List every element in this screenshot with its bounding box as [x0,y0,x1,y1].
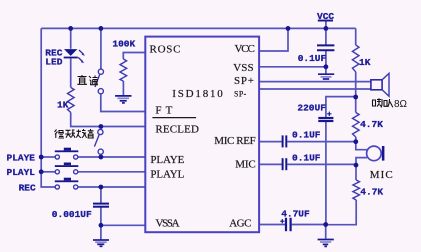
svg-text:0.1UF: 0.1UF [298,53,327,64]
switch S1 (direct) upper contact [98,69,103,74]
svg-text:4.7UF: 4.7UF [281,209,310,220]
LED D1 emission arrows [78,50,85,63]
VCC power symbol bar [318,20,333,22]
capacitor C6 4.7UF plates [286,218,291,231]
ground (VSS C1) [318,74,334,79]
wire VCC symbol stem [325,21,327,29]
label la-ba (speaker) glyph 2 [384,99,393,107]
wire R5 bottom corner to AGC node [326,200,357,225]
wire AGC node ground stem [325,225,327,239]
wire R5 top stub [355,165,357,180]
wire switch S1 branch from rail [100,28,102,69]
svg-text:100K: 100K [112,38,135,49]
wire R1 bottom to ground [122,81,124,95]
LED D1 cathode bar [64,57,78,59]
wire C6 to AGC node [292,224,326,226]
capacitor C2 plus sign [327,112,331,116]
svg-text:4.7K: 4.7K [360,119,383,130]
svg-text:PLAYE: PLAYE [150,154,184,166]
label zhi-tong (direct) glyph 1 [77,75,87,84]
label xun-huan-fang-yin glyph 3 [76,129,86,138]
svg-text:MIC REF: MIC REF [214,135,255,147]
svg-text:AGC: AGC [229,218,251,230]
capacitor C4 0.001UF plates [93,204,109,207]
wire S2 lower contact to PLAYE row [100,154,102,157]
junction node left rail PLAYL [39,169,44,174]
wire MIC REF row chip to cap [259,141,281,143]
capacitor C2 220UF plates [318,118,333,121]
wire PLAYL row right to chip [78,171,145,173]
wire ROSC pin to R1 [123,53,145,59]
junction node AGC [323,222,328,227]
wire C2 bottom long drop to AGC row [325,122,327,225]
wire R2 bottom to RECLED row [71,113,145,127]
junction node VSS ground [324,64,329,69]
junction node right rail 220uF [353,95,358,100]
svg-text:SP+: SP+ [234,75,254,87]
svg-text:VSSA: VSSA [156,218,180,230]
wire LED cathode to resistor R2 [70,59,72,88]
svg-text:0.1UF: 0.1UF [292,152,321,163]
microphone MK1 electret bar [382,146,385,161]
label la-ba (speaker) glyph 1 [373,98,383,107]
wire SP+ row to speaker [259,81,371,83]
junction node on rail at VCC pin branch [286,26,291,31]
resistor R4 4.7K (upper) [352,113,359,137]
svg-text:SP-: SP- [234,89,247,98]
microphone MK1 circle [367,146,382,161]
wire rail to C1 top plate [325,28,327,45]
svg-text:ISD1810: ISD1810 [172,88,223,100]
label xun-huan-fang-yin glyph 4 [88,129,94,138]
svg-text:VCC: VCC [317,11,334,22]
switch S2 (loop play) upper contact [98,129,103,134]
switch S1 lower contact [98,89,103,94]
ground (ROSC R1) [115,96,131,103]
wire left rail down to REC button [41,28,55,187]
wire 220uF top to right rail [326,97,356,118]
junction node mic bottom [354,163,359,168]
wire VSS pin to ground node [259,66,326,68]
wire PLAYE row left [41,156,55,158]
wire LED branch from rail [70,28,72,48]
wire C1 bottom to VSS node [325,51,327,74]
FT underline [152,117,196,119]
capacitor C3 0.1UF (MIC REF) plates [283,135,287,147]
junction node left rail PLAYE [39,155,44,160]
label xun-huan-fang-yin (loop play) glyph 1 [55,130,65,139]
svg-text:1K: 1K [57,99,69,110]
wire right rail R3 bottom to R4 top [355,28,357,112]
svg-text:MIC: MIC [235,159,256,171]
wire SP- row to speaker [259,88,371,90]
wire MIC REF cap to right node [287,141,356,143]
svg-text:MIC: MIC [370,169,393,181]
junction node RECLED row at S2 [99,124,104,129]
svg-text:PLAYE: PLAYE [7,152,36,163]
svg-text:4.7K: 4.7K [360,187,383,198]
wire PLAYL row left [41,171,55,173]
pushbutton PLAYL [55,163,79,174]
svg-text:8Ω: 8Ω [394,99,408,110]
label xun-huan-fang-yin glyph 2 [65,130,75,138]
switch S1 lever [95,74,100,87]
speaker LS1 cone [382,73,389,96]
junction node on rail at LED branch [68,26,73,31]
wire MIC cap to right node [287,163,356,165]
LED D1 triangle [64,49,77,56]
wire top VCC rail [41,27,356,29]
svg-text:VCC: VCC [235,43,255,55]
wire S1 lower contact to FT pin [101,94,145,112]
junction node VSSA row [99,223,104,228]
wire mic top stub [356,142,367,150]
wire C4 branch down from REC row [100,187,102,203]
capacitor C1 0.1UF plates [317,45,334,50]
resistor R1 100K [120,59,127,81]
wire mic bottom stub [356,158,367,166]
wire R4 bottom to mic top node [355,137,357,142]
junction node on rail at S1 branch [99,26,104,31]
speaker LS1 box [371,80,382,90]
resistor R2 1K (LED) [68,88,75,113]
wire PLAYE row right to chip [78,156,145,158]
svg-text:0.001UF: 0.001UF [52,209,92,220]
capacitor C6 plus sign [280,219,284,223]
junction node mic top [353,139,358,144]
wire VSSA ground stem [100,225,102,239]
svg-text:RECLED: RECLED [155,124,199,136]
pushbutton REC [55,178,79,189]
junction node on rail at VCC symbol [324,26,329,31]
wire VCC pin branch [259,28,288,51]
svg-text:ROSC: ROSC [150,44,181,56]
svg-text:VSS: VSS [233,62,253,74]
junction node PLAYE row at S2 [99,155,104,160]
capacitor C5 0.1UF (MIC) plates [283,158,287,170]
ground (AGC) [318,240,334,247]
resistor R3 1K (top right) [352,45,359,72]
wire REC row right to chip [78,186,145,188]
pushbutton PLAYE [55,148,79,159]
svg-text:220UF: 220UF [297,103,326,114]
wire MIC row chip to cap [259,163,281,165]
svg-text:PLAYL: PLAYL [7,167,36,178]
switch S2 lower contact [98,149,103,154]
wire C4 to VSSA row [101,207,145,225]
svg-text:0.1UF: 0.1UF [292,130,321,141]
chip U1 ISD1810 body [145,37,259,233]
wire AGC pin to C6 [259,224,285,226]
label zhi-tong (direct) glyph 2 [89,76,98,85]
ground (VSSA C4) [93,240,109,246]
switch S2 lever [94,135,99,147]
resistor R5 4.7K (lower) [353,180,360,200]
junction node REC row at C4 [99,185,104,190]
svg-text:LED: LED [45,57,62,68]
svg-text:1K: 1K [359,57,371,68]
svg-text:FT: FT [155,104,172,116]
svg-text:PLAYL: PLAYL [150,168,184,180]
svg-text:REC: REC [19,182,36,193]
